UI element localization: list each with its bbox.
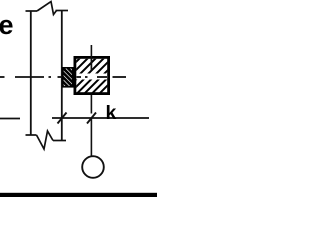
break symbol top [26, 2, 69, 15]
balloon circle [82, 156, 104, 178]
tick at bolt axis [87, 113, 96, 124]
svg-text:e: e [0, 10, 14, 40]
column flange line left [30, 11, 32, 135]
tick at column face [58, 113, 67, 124]
weld / packing plate (small hatched rect) [40, 68, 109, 105]
bolt axis over plate [90, 56, 92, 71]
break symbol bottom [26, 131, 67, 149]
dimension line [0, 117, 149, 120]
column flange line right [61, 11, 63, 141]
plate cross-section (hatched square) [62, 56, 121, 94]
svg-text:k: k [106, 102, 117, 124]
bottom black bar [0, 193, 157, 197]
center line dashes inside square [77, 76, 108, 78]
vertical center line (bolt axis) [90, 45, 92, 156]
horizontal center line (dash-dot) [0, 76, 126, 78]
